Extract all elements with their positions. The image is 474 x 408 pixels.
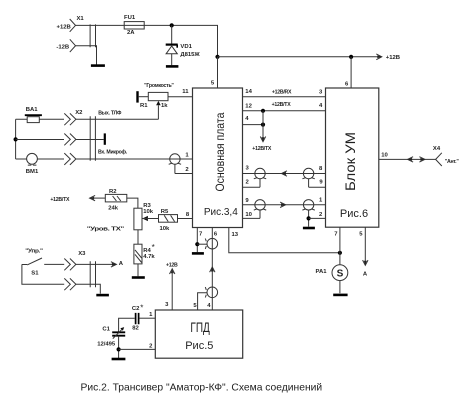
ground (X1 minus) (91, 64, 105, 67)
coax screen symbol (mic) (169, 154, 181, 174)
node junction +12V rail / pin 5 (215, 55, 219, 59)
svg-text:X2: X2 (75, 110, 83, 116)
coax screen symbol (TX right) (302, 200, 314, 227)
wire +12V/TX row (243, 102, 326, 113)
svg-text:C1: C1 (102, 326, 110, 332)
pin 11 label (182, 89, 189, 95)
capacitor C2 82 (132, 303, 144, 331)
svg-text:Вых. ТЛФ: Вых. ТЛФ (98, 110, 122, 116)
svg-text:BM1: BM1 (26, 169, 39, 175)
wire R3 to R4 (137, 230, 139, 244)
wire VFO pin 5 screen (193, 293, 211, 310)
wire PA1 to ground (339, 281, 341, 294)
wire RX signal row (coax) (243, 171, 326, 176)
wire pin 6 PA block (345, 57, 351, 88)
zener diode VD1 Д815Ж (166, 25, 201, 65)
svg-text:+12В: +12В (57, 25, 71, 31)
wire pin 13 to PA1 (229, 228, 340, 253)
wire pin 4 stub and off-sheet arrow +12V/TX down (243, 111, 272, 152)
node junction TX screen ground (307, 216, 311, 220)
svg-text:-12В: -12В (56, 44, 69, 50)
variable capacitor C1 12/495 (97, 326, 125, 347)
wire C1 to ground (118, 336, 120, 359)
svg-text:BA1: BA1 (26, 107, 39, 113)
meter PA1 S (315, 265, 347, 281)
wire TX screen stubs (243, 198, 326, 219)
wire X3 to ground (96, 284, 101, 293)
svg-text:Д815Ж: Д815Ж (180, 52, 200, 58)
svg-text:10: 10 (381, 153, 388, 159)
wire pin 5 main board (211, 57, 218, 88)
connector X1 body lines (90, 24, 95, 47)
svg-text:"Громкость": "Громкость" (144, 83, 174, 89)
wire common row (16, 139, 64, 141)
svg-text:VD1: VD1 (180, 44, 192, 50)
svg-text:+12В/TX: +12В/TX (272, 102, 292, 108)
off-sheet arrow A (96, 261, 124, 267)
svg-text:*: * (152, 243, 155, 252)
wire left bus (15, 119, 17, 159)
svg-text:Основная плата: Основная плата (215, 112, 227, 192)
svg-text:Рис.6: Рис.6 (340, 208, 368, 220)
terminal bar common row (95, 133, 104, 144)
wire PA block pin 7 down (339, 227, 341, 265)
svg-text:"Ант.": "Ант." (445, 159, 460, 165)
wire phones row to R1 wiper (95, 118, 158, 120)
svg-text:82: 82 (132, 325, 139, 331)
ground (PA1) (333, 294, 347, 297)
svg-text:X3: X3 (78, 251, 86, 257)
svg-text:+12В/RX: +12В/RX (272, 89, 292, 95)
off-sheet arrow A (PA block pin 5) (334, 227, 368, 277)
microphone BM1 (26, 153, 39, 175)
wire VFO pin 4 coax to main board pin 6 (211, 228, 213, 311)
svg-text:S: S (337, 268, 344, 279)
svg-text:А: А (363, 272, 368, 278)
svg-text:+12В: +12В (166, 263, 178, 269)
svg-text:4.7k: 4.7k (143, 254, 155, 260)
svg-text:Вх. Микроф.: Вх. Микроф. (98, 148, 128, 155)
svg-text:Рис.3,4: Рис.3,4 (204, 207, 238, 218)
svg-text:ГПД: ГПД (190, 319, 210, 335)
connector X1 pin +12V (57, 16, 85, 32)
coax screen symbol (RX right) (302, 168, 314, 187)
coax screen symbol (top, at pin 6) (205, 238, 217, 249)
switch S1 Упр. (22, 249, 64, 277)
ground (TX screen) (303, 227, 315, 230)
wire speaker row (16, 118, 64, 120)
caption (81, 383, 323, 394)
wire +12V rail (76, 25, 218, 56)
connector X4 pin Ант. (433, 146, 459, 166)
fuse FU1 2A (124, 15, 144, 36)
ground (C1) (112, 358, 126, 361)
svg-text:11: 11 (182, 89, 189, 95)
wire mic screen to pin 2 (175, 152, 193, 173)
svg-text:R2: R2 (109, 189, 117, 195)
resistor R5 10k (142, 209, 177, 232)
speaker BA1 (25, 107, 42, 122)
svg-text:+12В/TX: +12В/TX (252, 146, 272, 152)
ground (R4) (132, 276, 145, 279)
coax screen symbol (bottom, at VFO pin 4) (205, 287, 217, 298)
off-sheet arrow +12V out (376, 54, 400, 61)
node junction pin 6 of PA block (349, 55, 353, 59)
svg-text:Блок УМ: Блок УМ (342, 132, 358, 191)
pin labels 7 6 13 (199, 231, 239, 238)
wire S1 return (22, 264, 64, 284)
ground (main board pin 7) (192, 252, 204, 255)
svg-text:13: 13 (232, 232, 239, 238)
wire mic signal to pin 1 (95, 158, 192, 160)
connector X2 contacts (64, 110, 95, 165)
PA block (Блок УМ) (326, 88, 379, 227)
svg-text:S1: S1 (31, 270, 39, 276)
svg-text:+12В/ТХ: +12В/ТХ (50, 197, 70, 203)
wire pin 7 to ground (195, 228, 207, 253)
svg-text:"Уров. ТХ": "Уров. ТХ" (87, 226, 125, 232)
wire R2 to R3 (127, 198, 138, 208)
node junction VFO pin 2 (117, 347, 121, 351)
node junction PA1 (338, 251, 342, 255)
potentiometer R3 10k Уров.ТХ (87, 203, 154, 232)
svg-text:+12В: +12В (386, 55, 400, 61)
svg-text:R5: R5 (161, 209, 169, 215)
VFO block (ГПД) (155, 310, 242, 358)
svg-text:Рис.5: Рис.5 (185, 340, 213, 352)
wire microphone row (16, 158, 64, 160)
svg-text:*: * (140, 303, 143, 312)
wire VFO pin 2 (119, 344, 155, 350)
svg-text:24k: 24k (108, 206, 119, 212)
connector X1 pin -12V (56, 39, 75, 52)
svg-text:"Упр.": "Упр." (25, 249, 43, 255)
svg-text:1k: 1k (161, 103, 168, 109)
wire R5 to pin 8 (178, 212, 193, 219)
ground (VD1) (166, 65, 179, 68)
wire TX signal row (coax) (243, 202, 326, 207)
wire antenna output pin 10 (379, 153, 436, 160)
node junction at VD1 (170, 23, 174, 27)
svg-text:C2: C2 (132, 306, 140, 312)
arrow signal direction up (210, 267, 215, 272)
svg-text:X4: X4 (433, 146, 441, 152)
svg-text:14: 14 (245, 89, 252, 95)
svg-text:Рис.2. Трансивер "Аматор-КФ".: Рис.2. Трансивер "Аматор-КФ". Схема соед… (81, 383, 323, 394)
wire VFO pin 1 (140, 312, 156, 318)
svg-text:X1: X1 (77, 16, 85, 22)
wire R4 to ground (137, 264, 139, 276)
resistor R2 24k (105, 189, 127, 212)
svg-text:10k: 10k (160, 226, 171, 232)
svg-text:FU1: FU1 (124, 15, 136, 21)
off-sheet arrow +12V/TX in (50, 195, 105, 203)
svg-text:R1: R1 (140, 103, 148, 109)
svg-text:12/495: 12/495 (97, 341, 116, 347)
coax screen symbol (RX left) (254, 168, 266, 187)
potentiometer R1 Громкость 1k (138, 83, 193, 119)
wire +12V distribution (218, 56, 382, 58)
main board block (Основная плата) (193, 88, 243, 228)
wire -12V to ground (76, 46, 97, 65)
wire C2 to C1 (119, 318, 135, 332)
coax screen symbol (TX left) (254, 200, 266, 219)
svg-text:PA1: PA1 (315, 269, 327, 275)
ground (X3) (96, 294, 109, 297)
node junction left bus (14, 137, 18, 141)
off-sheet arrow +12V to VFO pin 3 (165, 263, 178, 311)
svg-text:10: 10 (245, 212, 252, 218)
resistor R4 4.7k (134, 243, 155, 264)
svg-text:10k: 10k (143, 209, 154, 215)
label Вых. ТЛФ (98, 110, 122, 116)
wire RX screen stubs (243, 166, 326, 188)
svg-text:12: 12 (245, 103, 252, 109)
arrow bidirectional (408, 157, 425, 162)
svg-text:2А: 2А (127, 30, 135, 36)
svg-text:А: А (119, 261, 124, 267)
wire +12V/RX row (243, 89, 326, 97)
connector X3 contacts (64, 251, 95, 290)
label Вх. Микроф. (98, 148, 128, 155)
